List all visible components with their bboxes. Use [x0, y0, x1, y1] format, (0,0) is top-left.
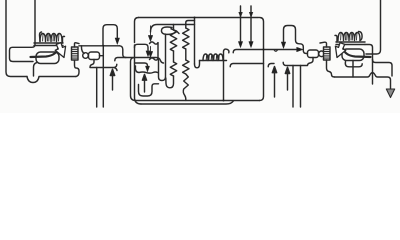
wire V3 long vertical — [102, 46, 104, 107]
capacitor B2 bottom elbow to ground line — [327, 60, 335, 77]
transformer T1 core double lines — [34, 43, 63, 46]
junction dot V8/bottom bus — [223, 100, 225, 102]
small dip curl on H10 — [274, 50, 278, 52]
wire n-hook with down arrow — [103, 25, 117, 46]
arrow up A3 onto wavy line — [142, 74, 146, 92]
wire H11b stub hook — [268, 64, 274, 67]
arrow up A7 — [285, 67, 289, 90]
arrow down bridge 1 onto H6 — [146, 51, 150, 56]
resistor R2 zigzag top — [183, 28, 189, 49]
arrow down VA onto H10 — [238, 42, 242, 48]
inner loop U — [139, 84, 159, 96]
wire H6 horizontal with left hook — [115, 58, 164, 64]
resistor R1 zigzag top — [170, 30, 176, 51]
coil T1 hatching — [43, 35, 59, 42]
hairpin U2 under coil — [195, 61, 200, 68]
wire V14 long vertical right — [292, 66, 294, 108]
wire V7 from bus to hairpin U2 — [194, 18, 196, 65]
wire elbow left under transformer — [10, 43, 36, 62]
wire bottom bus left corner up V9 — [131, 58, 136, 101]
arrow down VB onto H10 — [249, 42, 253, 48]
transformer T1 tuning arrow shaft — [31, 46, 59, 58]
wire H5r pill bottom to left hook — [283, 58, 313, 66]
wire H10 with left hook — [233, 50, 299, 53]
arrow down bridge 2 onto wavy line — [146, 66, 150, 71]
coil T2 hatching — [341, 34, 357, 41]
arrow up A6 — [272, 67, 276, 98]
arrow head down onto H10 right — [281, 42, 285, 48]
transformer T2 secondary loop — [342, 49, 364, 61]
coil T1 left tick — [39, 32, 41, 42]
transformer T1 secondary loop — [36, 52, 59, 64]
arrowheads on H7 crossings — [239, 12, 243, 17]
resistor R1 bottom U-bend to hairpin — [166, 76, 174, 88]
junction dot V7/H7 — [194, 17, 196, 19]
resistor R2 middle wire — [185, 49, 187, 60]
loop curl under inner bus — [161, 27, 179, 34]
transformer T2 left tick — [335, 35, 337, 42]
wire ground run with jump — [335, 73, 391, 89]
transformer T2 core double lines — [336, 42, 365, 45]
ground arrow head — [386, 89, 394, 98]
transformer T2 loop bottom lead — [352, 61, 354, 78]
circle C1 lead up — [82, 46, 85, 54]
wire hook-arrow upper right — [284, 26, 308, 54]
capacitor B1 hatched box — [72, 47, 79, 60]
twisted pair tilde 2 — [150, 58, 159, 60]
wire bottom bus right corner up V6 — [260, 18, 264, 101]
coil L2 humps — [203, 54, 223, 61]
transformer T2 loop under-fold — [345, 62, 362, 67]
wire V15 bottom vertical right — [300, 66, 302, 108]
resistor R2 zigzag bottom — [183, 60, 189, 74]
resistor R1 middle wire — [173, 51, 175, 62]
capacitor B2 hatched box — [324, 47, 331, 60]
wire V3b bottom vertical — [96, 68, 98, 108]
junction dot V6/H10 — [263, 49, 265, 51]
wire jump bridge 1 — [135, 44, 149, 50]
twisted pair arrow 1 — [149, 26, 153, 41]
wire T2 vertical through ground line — [372, 60, 374, 85]
twisted pair inner leg — [157, 43, 159, 59]
hairpin U1 — [159, 34, 166, 80]
coil T1 primary — [40, 34, 62, 42]
resistor R2 bottom squiggle to bus — [183, 74, 188, 100]
wire T2 right path down and right — [365, 45, 392, 77]
wire H5 pill-bottom horizontal with right hook — [90, 60, 117, 71]
wire bottom-left horizontal with jump loop — [27, 77, 76, 83]
capacitor B2 top stub — [320, 42, 327, 47]
wire top right vertical — [366, 0, 381, 54]
wire inner bus H8 — [151, 25, 195, 33]
resistor P1 pill box — [89, 52, 100, 60]
wire wavy line — [135, 66, 157, 73]
wire jump bridge 2 — [135, 63, 148, 66]
wire top bus H7 — [139, 17, 259, 19]
resistor R2 top lead — [186, 21, 195, 29]
wire bottom bus inner parallel line — [141, 101, 234, 104]
wire second top-left vertical — [34, 0, 36, 43]
wire bottom bus — [136, 100, 260, 102]
twisted pair arrow 2 — [149, 47, 153, 57]
transformer T1 tuning arrow head — [55, 43, 65, 58]
coil L2 right tick — [224, 49, 229, 60]
coil T2 primary — [338, 33, 360, 41]
transformer T1 right tick — [63, 36, 65, 43]
resistor P2 pill box — [308, 50, 319, 58]
wire top stub VA — [240, 6, 242, 42]
wire corner H4 down to H6 — [120, 46, 127, 58]
arrow up onto H5 — [110, 69, 114, 90]
arrow right H10 end — [297, 47, 303, 51]
capacitor B1 top stub — [75, 43, 80, 47]
circle C2 terminal — [319, 51, 325, 57]
wire H7 left corner down V4 — [135, 18, 139, 43]
wire top stub VB — [250, 6, 252, 42]
circle C1 terminal — [83, 53, 89, 59]
transformer T2 tuning arrow shaft — [343, 46, 371, 58]
resistor R1 zigzag bottom — [170, 62, 176, 76]
wire H4 mid-left horizontal — [79, 45, 120, 47]
junction dot H4/V3 — [102, 45, 104, 47]
coil L2 baseline — [200, 60, 227, 62]
wire V8 coil down to bottom bus — [223, 61, 225, 101]
wire V4 continues down to loop — [135, 45, 142, 104]
twisted pair tilde 1 — [150, 42, 159, 44]
wire riser to hatched box bottom — [75, 60, 80, 77]
wire left edge vertical bus — [6, 0, 27, 77]
coil T2 right end curl — [359, 32, 363, 41]
wire H11 with left hook — [230, 64, 263, 67]
arrow head down onto H4 — [115, 38, 119, 44]
transformer T2 tuning arrow head — [335, 43, 345, 58]
coil L2 hatching — [206, 55, 219, 60]
transformer T1 loop left lead down — [34, 63, 38, 77]
resistor R1 top lead — [173, 25, 175, 31]
wire pill right stub — [100, 55, 104, 57]
